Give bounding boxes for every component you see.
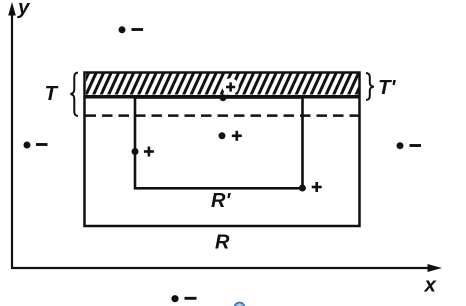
- y-axis: [11, 10, 13, 268]
- svg-text:x: x: [424, 274, 438, 297]
- svg-text:T': T': [378, 76, 397, 99]
- left brace for T: [71, 73, 79, 117]
- white halo around plus in strip: [222, 78, 238, 94]
- svg-text:y: y: [17, 0, 31, 19]
- svg-text:T: T: [45, 82, 59, 105]
- y-axis arrowhead: [8, 2, 16, 16]
- point right outside with minus: [397, 142, 422, 149]
- point on R' bottom-right corner with plus: [299, 182, 322, 192]
- point on R' left edge with plus: [132, 147, 154, 157]
- right brace for T': [366, 73, 374, 100]
- strip bottom line: [85, 95, 360, 99]
- point left outside with minus: [24, 142, 48, 149]
- svg-text:R: R: [215, 232, 230, 254]
- hatching of strip T': [78, 72, 367, 96]
- point on strip bottom with plus: [220, 82, 236, 101]
- point top outside with minus: [119, 26, 144, 33]
- x-axis: [11, 267, 430, 269]
- rectangle R: [85, 73, 360, 227]
- point center with plus: [219, 131, 242, 141]
- svg-text:R': R': [211, 190, 231, 212]
- rectangle R': [135, 98, 303, 189]
- point bottom outside with minus: [171, 295, 196, 302]
- dashed line: [86, 114, 360, 117]
- x-axis arrowhead: [428, 264, 443, 272]
- blue cropped circle at bottom: [235, 302, 245, 306]
